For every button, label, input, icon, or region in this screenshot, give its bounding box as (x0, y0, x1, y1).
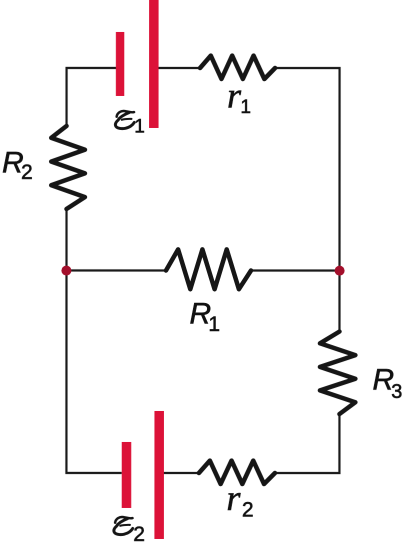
label script-E2 emf symbol (114, 517, 133, 535)
svg-text:1: 1 (240, 97, 251, 118)
label R1 (189, 297, 220, 336)
label R2 (2, 146, 33, 184)
wire battery E1 plus plate to r1 (159, 67, 200, 69)
svg-text:2: 2 (133, 523, 145, 546)
battery E1 negative short plate (116, 32, 124, 96)
svg-text:1: 1 (134, 116, 145, 137)
label r1 (227, 75, 251, 118)
battery E2 positive tall plate (154, 411, 164, 539)
label script-E1 emf symbol (115, 111, 134, 129)
wire top-left corner to battery E1 minus plate (67, 68, 117, 126)
svg-text:2: 2 (242, 499, 254, 522)
svg-text:3: 3 (391, 381, 402, 403)
wire r1 to top-right corner down to node B (275, 68, 340, 271)
svg-text:2: 2 (21, 161, 33, 184)
wire R3 to bottom-right corner to r2 (275, 414, 340, 473)
label R3 (372, 364, 402, 404)
wire node A to R1 left (67, 269, 166, 271)
node A junction dot (61, 266, 71, 276)
wire battery E2 minus plate to bottom-left corner up to node A (66, 270, 121, 473)
resistor r2 (199, 461, 275, 484)
battery E2 negative short plate (122, 442, 132, 508)
battery E1 positive tall plate (149, 0, 159, 128)
resistor R2 (51, 126, 85, 209)
node B junction dot (335, 266, 345, 276)
resistor r1 (200, 56, 275, 79)
label r2 (226, 478, 253, 522)
resistor R1 (166, 249, 251, 289)
resistor R3 (320, 332, 355, 415)
svg-text:1: 1 (208, 313, 220, 336)
svg-text:r: r (226, 478, 241, 518)
wire node A up to R2 bottom (65, 209, 67, 271)
wire R1 right to node B (251, 269, 339, 271)
wire r2 to battery E2 plus plate (164, 472, 199, 474)
wire node B down to R3 (338, 271, 340, 332)
